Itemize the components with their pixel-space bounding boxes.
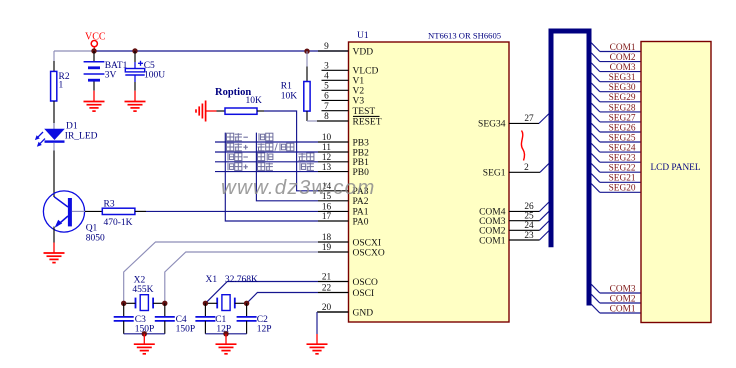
VCC power symbol: [85, 32, 106, 50]
label C5 100U: [144, 61, 166, 81]
svg-text:150P: 150P: [176, 325, 196, 335]
resistor Roption: [225, 108, 257, 114]
svg-text:5: 5: [324, 82, 329, 92]
battery BAT1: [84, 62, 105, 80]
crystal X2: [136, 295, 154, 311]
wire GND pin20 to ground: [317, 312, 349, 334]
svg-text:COM3: COM3: [610, 284, 636, 294]
wire X2 right stub: [153, 302, 165, 304]
svg-text:COM1: COM1: [610, 304, 636, 314]
wire BAT1 top stub: [93, 51, 95, 61]
wire key matrix row PB1 pin12: [215, 161, 318, 163]
capacitor C4: [155, 317, 175, 321]
node X1 right: [244, 301, 249, 306]
svg-text:VCC: VCC: [85, 32, 106, 43]
svg-text:8050: 8050: [86, 234, 105, 244]
svg-text:C4: C4: [176, 315, 187, 325]
wire X1 left node to C1: [204, 303, 206, 317]
svg-text:PB1: PB1: [353, 158, 370, 168]
svg-text:C1: C1: [215, 315, 226, 325]
svg-text:8: 8: [324, 112, 329, 122]
svg-text:COM2: COM2: [610, 294, 636, 304]
svg-text:C2: C2: [257, 315, 268, 325]
capacitor C2: [237, 317, 257, 321]
wire X2 left stub: [124, 302, 136, 304]
key label row1 定时- 风向: [227, 133, 234, 141]
wire X1 left stub: [205, 302, 217, 304]
svg-text:18: 18: [322, 233, 332, 243]
ground Q1: [53, 243, 55, 254]
wire R2 to D1: [53, 101, 55, 129]
label C3 150P: [135, 315, 155, 335]
svg-text:SEG27: SEG27: [609, 113, 636, 123]
svg-text:10K: 10K: [246, 96, 263, 106]
svg-text:PA1: PA1: [353, 208, 369, 218]
svg-text:COM2: COM2: [479, 227, 506, 237]
svg-text:24: 24: [524, 221, 534, 231]
resistor R2: [51, 71, 57, 101]
svg-text:OSCXI: OSCXI: [353, 238, 382, 248]
svg-text:21: 21: [322, 273, 332, 283]
svg-text:SEG20: SEG20: [609, 184, 636, 194]
node X2 left: [121, 301, 126, 306]
junction VCC/BAT1: [91, 48, 96, 53]
label C2 12P: [257, 315, 272, 335]
svg-text:11: 11: [322, 143, 331, 153]
svg-text:COM1: COM1: [479, 236, 506, 246]
label X2 455K: [132, 275, 153, 294]
svg-text:LCD PANEL: LCD PANEL: [651, 163, 701, 173]
label R2 value 1: [59, 72, 70, 91]
svg-text:C5: C5: [144, 61, 155, 71]
transistor Q1: [43, 191, 84, 232]
ground C5: [134, 91, 136, 102]
svg-text:23: 23: [524, 231, 534, 241]
svg-text:7: 7: [324, 102, 329, 112]
svg-text:32.768K: 32.768K: [225, 275, 258, 285]
svg-text:VLCD: VLCD: [353, 67, 379, 77]
U1 left pin names: [353, 47, 385, 318]
label BAT1 3V: [105, 61, 128, 81]
svg-text:16: 16: [322, 203, 332, 213]
wires COM4-COM1 pins 26-23 to bus: [509, 202, 549, 241]
label R3 470-1K: [104, 199, 133, 228]
wire C5 top stub: [134, 51, 136, 69]
wire ground to Roption: [206, 110, 225, 112]
svg-text:R3: R3: [104, 199, 115, 209]
svg-text:SEG31: SEG31: [609, 73, 636, 83]
label X1 32.768K: [206, 275, 259, 285]
key label row2 定时+ 控制/功能: [227, 143, 234, 151]
resistor R1: [304, 82, 310, 112]
label R1 10K: [281, 81, 298, 101]
svg-text:GND: GND: [353, 308, 374, 318]
ground X1: [225, 334, 227, 344]
svg-text:Q1: Q1: [86, 224, 98, 234]
wire OSCXI pin18 to X2 left: [124, 242, 318, 303]
svg-text:470-1K: 470-1K: [104, 218, 133, 228]
svg-text:SEG1: SEG1: [483, 169, 506, 179]
ground X2: [143, 334, 145, 344]
svg-text:IR_LED: IR_LED: [65, 132, 98, 142]
svg-text:V3: V3: [353, 97, 365, 107]
wires bus to LCD panel bottom COM3 COM2 COM1: [591, 284, 641, 314]
svg-text:19: 19: [322, 243, 332, 253]
svg-text:V2: V2: [353, 87, 365, 97]
label Q1 8050: [86, 224, 105, 244]
ground BAT1: [93, 91, 95, 102]
svg-text:SEG24: SEG24: [609, 144, 636, 154]
ground Roption (left earth): [196, 101, 206, 122]
svg-text:www.dz3w.com: www.dz3w.com: [221, 176, 376, 199]
label Roption 10K: [215, 87, 262, 106]
wire SEG34 pin27 to bus: [509, 114, 549, 124]
svg-text:COM1: COM1: [610, 43, 636, 53]
svg-text:SEG34: SEG34: [478, 120, 506, 130]
wire R1 top stub: [306, 51, 308, 81]
junction R1: [304, 49, 309, 54]
svg-text:SEG29: SEG29: [609, 93, 636, 103]
svg-text:COM3: COM3: [610, 63, 636, 73]
wire key matrix column 1 to PA0 pin17: [225, 133, 318, 221]
U1 right pin names: [478, 120, 506, 247]
wire R2 branch down: [53, 51, 55, 71]
svg-text:1: 1: [59, 81, 64, 91]
wire R1 bottom to RESET pin8: [307, 111, 318, 121]
svg-text:SEG25: SEG25: [609, 133, 636, 143]
svg-text:4: 4: [324, 72, 329, 82]
svg-text:C3: C3: [135, 315, 146, 325]
label D1 IR_LED: [65, 122, 98, 142]
svg-text:PA0: PA0: [353, 217, 369, 227]
wire X2 right node to C4: [164, 303, 166, 317]
svg-text:9: 9: [324, 42, 329, 52]
svg-text:17: 17: [322, 212, 332, 222]
svg-text:COM2: COM2: [610, 53, 636, 63]
svg-text:VDD: VDD: [353, 47, 374, 57]
svg-text:3: 3: [324, 62, 329, 72]
svg-text:RESET: RESET: [353, 117, 382, 127]
wire OSCXO pin19 to X2 right: [165, 252, 318, 303]
svg-text:SEG22: SEG22: [609, 164, 636, 174]
crystal X1: [217, 295, 235, 311]
svg-text:SEG21: SEG21: [609, 174, 636, 184]
wire key matrix column 2 to PA2 pin15: [256, 133, 318, 201]
wire Q1 emitter to ground: [53, 227, 55, 243]
svg-text:X1: X1: [206, 275, 218, 285]
svg-text:SEG23: SEG23: [609, 154, 636, 164]
svg-text:TEST: TEST: [353, 107, 376, 117]
junction C5: [132, 48, 137, 53]
capacitor C5: [125, 61, 144, 75]
resistor R3: [102, 208, 135, 214]
svg-text:PB2: PB2: [353, 148, 370, 158]
svg-text:PB3: PB3: [353, 138, 370, 148]
LED D1: [35, 129, 65, 147]
wire key matrix row PB0 pin13: [215, 171, 318, 173]
wire C1 C2 bottom rail: [205, 321, 246, 334]
svg-text:U1: U1: [357, 31, 369, 41]
wire X1 right node to C2: [246, 303, 248, 317]
wire X2 left node to C3: [123, 303, 125, 317]
wire VCC top rail gray segment: [54, 50, 94, 52]
svg-text:27: 27: [524, 114, 534, 124]
wire Q1 base to R3: [72, 210, 102, 212]
node X2 ground junction: [142, 331, 147, 336]
svg-text:12P: 12P: [257, 325, 272, 335]
wire X1 right stub: [235, 302, 247, 304]
LCD panel body: [641, 42, 711, 323]
svg-text:SEG30: SEG30: [609, 83, 636, 93]
IC U1 body: [349, 42, 510, 322]
svg-text:10K: 10K: [281, 91, 298, 101]
wires bus to LCD panel COM1-SEG20: [591, 43, 641, 194]
bus to LCD panel: [551, 31, 589, 306]
svg-text:6: 6: [324, 92, 329, 102]
svg-text:13: 13: [322, 163, 332, 173]
U1 left pin stubs and numbers: [318, 42, 349, 313]
wire D1 to Q1 collector: [53, 143, 55, 197]
wire R3 to PA1 pin16: [135, 210, 318, 212]
svg-text:10: 10: [322, 133, 332, 143]
wire SEG1 pin2 to bus: [509, 163, 549, 173]
wire BAT1 bottom: [93, 82, 95, 91]
ellipsis squiggle SEG range: [521, 131, 524, 161]
key label row3 温度- 风速 电源: [228, 153, 234, 161]
wire Roption to key matrix column 3: [257, 111, 318, 191]
svg-text:COM3: COM3: [479, 217, 506, 227]
svg-text:100U: 100U: [144, 71, 165, 81]
wire VCC top rail: [94, 50, 349, 52]
ground U1 GND: [316, 334, 318, 344]
svg-text:NT6613 OR SH6605: NT6613 OR SH6605: [428, 31, 501, 41]
svg-text:SEG28: SEG28: [609, 103, 636, 113]
svg-text:455K: 455K: [132, 285, 153, 295]
svg-text:12: 12: [322, 153, 332, 163]
wire C3 C4 bottom rail: [124, 321, 165, 334]
svg-text:25: 25: [524, 212, 534, 222]
wire key matrix row PB3 pin10: [215, 141, 318, 143]
svg-text:22: 22: [322, 284, 332, 294]
svg-text:BAT1: BAT1: [105, 61, 128, 71]
capacitor C1: [195, 317, 215, 321]
svg-text:V1: V1: [353, 77, 365, 87]
wire C5 bottom: [134, 75, 136, 91]
svg-text:R1: R1: [281, 81, 292, 91]
svg-text:OSCI: OSCI: [353, 289, 375, 299]
svg-text:OSCO: OSCO: [353, 278, 378, 288]
wire OSCO pin21 to X1 left: [205, 282, 318, 304]
key label row4 温度+ 定时 锁定: [228, 163, 234, 171]
svg-text:3V: 3V: [105, 70, 117, 80]
node X2 right: [162, 301, 167, 306]
label C1 12P: [215, 315, 231, 335]
svg-text:20: 20: [322, 303, 332, 313]
svg-text:SEG26: SEG26: [609, 123, 636, 133]
label C4 150P: [176, 315, 196, 335]
svg-text:2: 2: [524, 163, 529, 173]
svg-text:D1: D1: [66, 122, 78, 132]
wire OSCI pin22 to X1 right: [247, 293, 318, 304]
capacitor C3: [114, 317, 134, 321]
svg-text:OSCXO: OSCXO: [353, 248, 385, 258]
node X1 ground junction: [223, 331, 228, 336]
node X1 left: [203, 301, 208, 306]
wire key matrix row PB2 pin11: [215, 151, 318, 153]
